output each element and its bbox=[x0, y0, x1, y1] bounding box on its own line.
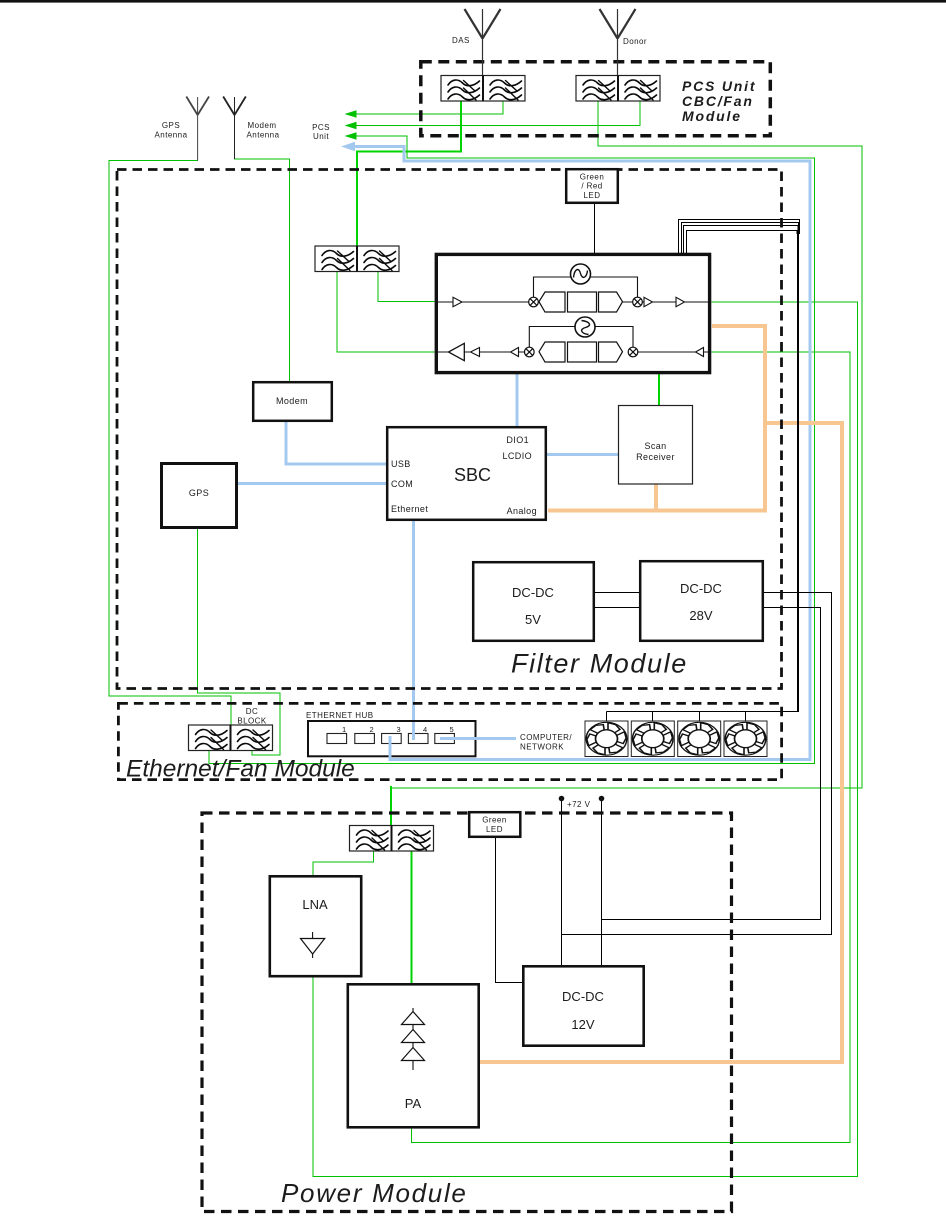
svg-text:SBC: SBC bbox=[454, 465, 491, 485]
wire: black fan power feed bbox=[607, 711, 800, 713]
amplifier A3 bbox=[676, 297, 685, 306]
modem U2 bbox=[253, 382, 332, 421]
wire: orange Scan Receiver drop bbox=[654, 484, 658, 512]
amplifier A4 (RX output, large) bbox=[449, 343, 465, 360]
svg-text:COMPUTER/: COMPUTER/ bbox=[520, 733, 572, 742]
svg-text:Modem: Modem bbox=[248, 121, 277, 130]
fan B2 bbox=[629, 721, 677, 757]
svg-text:Scan: Scan bbox=[644, 441, 666, 451]
svg-text:2: 2 bbox=[370, 725, 374, 734]
antenna GPS bbox=[186, 97, 209, 161]
filter duplexer FL5 (power module) bbox=[350, 826, 434, 852]
wire: green GPS antenna left rail to DC block top bbox=[109, 161, 231, 726]
svg-text:GPS: GPS bbox=[162, 121, 180, 130]
svg-text:PCS: PCS bbox=[312, 123, 330, 132]
svg-text:CBC/Fan: CBC/Fan bbox=[682, 93, 754, 109]
wire: blue overlay into hub port 4 bbox=[412, 722, 415, 740]
wire: blue transceiver to SBC DIO1 bbox=[515, 374, 518, 425]
wire: DC-DC 28V output B to +72V rail bbox=[602, 608, 821, 920]
wire: green power duplexer left cell to LNA top bbox=[313, 850, 374, 876]
wire: orange branch across to outer riser bbox=[763, 421, 844, 425]
svg-text:5: 5 bbox=[450, 725, 454, 734]
oscillator OSC2 bbox=[575, 317, 595, 337]
svg-text:Ethernet/Fan Module: Ethernet/Fan Module bbox=[126, 756, 355, 783]
fan B4 bbox=[722, 721, 770, 757]
PA Q1 bbox=[348, 984, 479, 1127]
mixer M4 bbox=[628, 347, 638, 357]
amplifier A7 bbox=[696, 348, 704, 357]
node: PCS Unit green arrow 1 bbox=[345, 110, 357, 118]
SBC U4 bbox=[387, 427, 546, 520]
wire: green transceiver RX in from PA bbox=[412, 352, 851, 1143]
LED D2: Green LED bbox=[469, 812, 520, 837]
wire: green Donor left cell to power module duplexer bbox=[391, 101, 862, 789]
node: PCS Unit green arrow 2 bbox=[345, 122, 357, 130]
wire: green Modem antenna to Modem box bbox=[235, 159, 290, 381]
svg-text:LED: LED bbox=[486, 825, 503, 834]
antenna DAS bbox=[465, 9, 501, 76]
wire: DC-DC 5V to 28V link lower bbox=[595, 607, 640, 609]
wire: green DAS right cell to PCS Unit arrow 1 bbox=[355, 101, 503, 115]
module border: Power Module (dashed) bbox=[202, 813, 732, 1212]
amplifier stage 1 bbox=[412, 1008, 414, 1014]
amplifier stage 3 bbox=[412, 1043, 414, 1051]
svg-text:BLOCK: BLOCK bbox=[237, 717, 267, 726]
svg-text:GPS: GPS bbox=[189, 488, 209, 498]
node: +72V terminal dot 1 bbox=[559, 796, 565, 802]
svg-text:28V: 28V bbox=[689, 608, 712, 623]
DC-DC converter PS2 (28V) bbox=[640, 561, 763, 641]
port 5 bbox=[435, 734, 455, 744]
wire: oscillator 1 link bbox=[534, 277, 638, 297]
wire: fan 1 stub bbox=[606, 712, 608, 722]
svg-text:Green: Green bbox=[580, 173, 604, 182]
wire: blue GPS to SBC COM bbox=[239, 482, 385, 485]
wire: blue SBC LCDIO to Scan Receiver bbox=[548, 453, 618, 456]
wire: blue Modem to SBC USB bbox=[286, 423, 385, 464]
LED D1: Green/Red LED bbox=[566, 169, 618, 203]
amplifier A1 bbox=[453, 297, 462, 306]
svg-text:PA: PA bbox=[405, 1096, 422, 1111]
port 4 bbox=[408, 734, 428, 744]
svg-text:PCS Unit: PCS Unit bbox=[682, 78, 756, 94]
wire: green duplexer left cell to transceiver lower port bbox=[337, 272, 434, 352]
wire: RX chain segments bbox=[438, 351, 709, 353]
filter F2 (RX IF) bbox=[539, 342, 623, 362]
svg-text:COM: COM bbox=[391, 479, 413, 489]
svg-text:5V: 5V bbox=[525, 612, 541, 627]
wire: fan 2 stub bbox=[652, 712, 654, 722]
svg-text:4: 4 bbox=[423, 725, 427, 734]
fan B1 bbox=[583, 721, 631, 757]
wire: fan 3 stub bbox=[699, 712, 701, 722]
filter F1 (TX IF) bbox=[539, 292, 623, 312]
DC-DC converter PS3 (12V) bbox=[523, 966, 643, 1045]
amplifier A5 bbox=[471, 348, 480, 357]
svg-text:+72 V: +72 V bbox=[567, 800, 591, 809]
module border: Ethernet/Fan Module (dashed) bbox=[118, 703, 781, 779]
fan B3 bbox=[675, 721, 723, 757]
node: +72V terminal dot 2 bbox=[599, 796, 605, 802]
wire: green GPS box to DC block right cell bbox=[198, 530, 280, 756]
scan receiver U5 bbox=[619, 406, 693, 485]
GPS receiver U3 bbox=[162, 464, 237, 528]
port 2 bbox=[355, 734, 375, 744]
wire: black control bundle line 4 bbox=[687, 231, 798, 254]
svg-text:DC-DC: DC-DC bbox=[512, 585, 554, 600]
wire: oscillator 2 link bbox=[529, 327, 633, 348]
wire: black control bundle line 2 bbox=[682, 223, 799, 254]
filter duplexer FL1 (DAS) bbox=[441, 76, 525, 102]
svg-text:NETWORK: NETWORK bbox=[520, 743, 564, 752]
wire: black Green/Red LED to transceiver bbox=[594, 204, 596, 253]
amplifier A2 bbox=[644, 297, 653, 306]
svg-text:ETHERNET HUB: ETHERNET HUB bbox=[306, 711, 373, 720]
svg-text:1: 1 bbox=[342, 725, 346, 734]
svg-text:Filter Module: Filter Module bbox=[511, 649, 688, 679]
port 1 bbox=[327, 734, 347, 744]
mixer M1 bbox=[529, 297, 539, 307]
wire: blue PCS Unit data link to ethernet hub port 3 bbox=[352, 147, 810, 760]
svg-text:DC-DC: DC-DC bbox=[680, 581, 722, 596]
svg-text:Modem: Modem bbox=[276, 396, 308, 406]
wire: blue overlay from hub port 3 bbox=[389, 736, 392, 758]
wire: green Donor right cell to PCS Unit arrow 2 bbox=[355, 101, 640, 126]
svg-text:3: 3 bbox=[397, 725, 401, 734]
wire: black control bundle line 3 bbox=[684, 226, 798, 254]
svg-text:Antenna: Antenna bbox=[247, 131, 280, 140]
svg-text:12V: 12V bbox=[571, 1017, 594, 1032]
wire: green transceiver to Scan Receiver (thick) bbox=[658, 374, 660, 406]
svg-text:DC: DC bbox=[246, 707, 258, 716]
wire: fan 4 stub bbox=[745, 712, 747, 722]
wire: orange outer riser to PA bbox=[480, 421, 844, 1064]
wire: DC-DC 5V to 28V link upper bbox=[595, 592, 640, 594]
antenna Donor bbox=[600, 9, 636, 76]
svg-text:Donor: Donor bbox=[623, 37, 647, 46]
node: PCS Unit blue arrow bbox=[341, 142, 355, 152]
wire: +72V terminal 2 drop bbox=[601, 799, 603, 966]
filter duplexer FL3 (filter module) bbox=[315, 246, 399, 272]
node: PCS Unit green arrow 3 bbox=[345, 132, 357, 140]
top page border bar bbox=[0, 0, 946, 3]
svg-text:DIO1: DIO1 bbox=[506, 435, 529, 445]
port 3 bbox=[382, 734, 402, 744]
svg-text:Receiver: Receiver bbox=[636, 452, 675, 462]
filter duplexer FL2 (Donor) bbox=[576, 76, 660, 102]
svg-text:USB: USB bbox=[391, 459, 411, 469]
wire: blue hub port 5 to computer/network bbox=[441, 737, 513, 740]
wire: blue overlay from hub port 5 bbox=[440, 737, 516, 740]
mixer M2 bbox=[633, 297, 643, 307]
svg-text:LCDIO: LCDIO bbox=[502, 451, 532, 461]
svg-text:Analog: Analog bbox=[507, 506, 537, 516]
wire: green transceiver TX out to LNA bbox=[313, 302, 858, 1177]
svg-text:LED: LED bbox=[584, 191, 601, 200]
wire: black control bundle riser to fans bbox=[797, 232, 799, 712]
transceiver block U1 bbox=[436, 254, 709, 372]
wire: black control bundle line 1 bbox=[679, 220, 800, 254]
svg-text:Antenna: Antenna bbox=[155, 131, 188, 140]
mixer M3 bbox=[525, 347, 535, 357]
amplifier symbol inside LNA bbox=[312, 932, 314, 958]
svg-text:DAS: DAS bbox=[452, 36, 470, 45]
svg-text:Power Module: Power Module bbox=[281, 1178, 468, 1208]
wire: Green LED to DC-DC 12V bbox=[496, 838, 523, 983]
LNA U7 bbox=[270, 876, 361, 976]
amplifier A6 bbox=[511, 348, 519, 357]
wire: DC-DC 28V output A to +72V rail bbox=[562, 593, 832, 935]
module border: Filter Module (dashed) bbox=[117, 170, 782, 689]
wire: green power duplexer right cell to PA top (thick) bbox=[411, 850, 413, 984]
svg-text:Unit: Unit bbox=[313, 132, 329, 141]
wire: green net DAS antenna / duplexer feed (thick) bbox=[357, 101, 461, 247]
svg-text:DC-DC: DC-DC bbox=[562, 989, 604, 1004]
wire: TX chain segments bbox=[438, 301, 709, 303]
wire: +72V terminal 1 drop bbox=[561, 799, 563, 966]
DC-DC converter PS1 (5V) bbox=[473, 562, 594, 641]
wire: green duplexer right cell to transceiver upper port bbox=[378, 272, 434, 302]
svg-text:/ Red: / Red bbox=[581, 182, 602, 191]
module border: PCS Unit CBC/Fan Module (dashed) bbox=[421, 62, 771, 136]
svg-text:Module: Module bbox=[682, 108, 742, 124]
wire: blue SBC Ethernet to hub port 4 bbox=[412, 522, 415, 740]
node: junction DAS net to DC-block rail bbox=[209, 152, 815, 764]
wire: green power duplexer riser (thick) bbox=[390, 787, 392, 826]
antenna Modem bbox=[223, 97, 246, 160]
ethernet hub U6 bbox=[306, 711, 476, 756]
svg-text:Ethernet: Ethernet bbox=[391, 504, 428, 514]
amplifier stage 2 bbox=[412, 1025, 414, 1033]
wire: orange analog bus SBC to riser bbox=[548, 509, 767, 513]
svg-text:Green: Green bbox=[482, 816, 506, 825]
filter duplexer FL4 (DC block) bbox=[189, 725, 273, 751]
oscillator OSC1 bbox=[571, 264, 591, 284]
svg-text:LNA: LNA bbox=[302, 897, 328, 912]
wire: orange riser to transceiver bbox=[712, 326, 767, 512]
wire: green branch to PCS Unit arrow 3 bbox=[355, 136, 407, 151]
